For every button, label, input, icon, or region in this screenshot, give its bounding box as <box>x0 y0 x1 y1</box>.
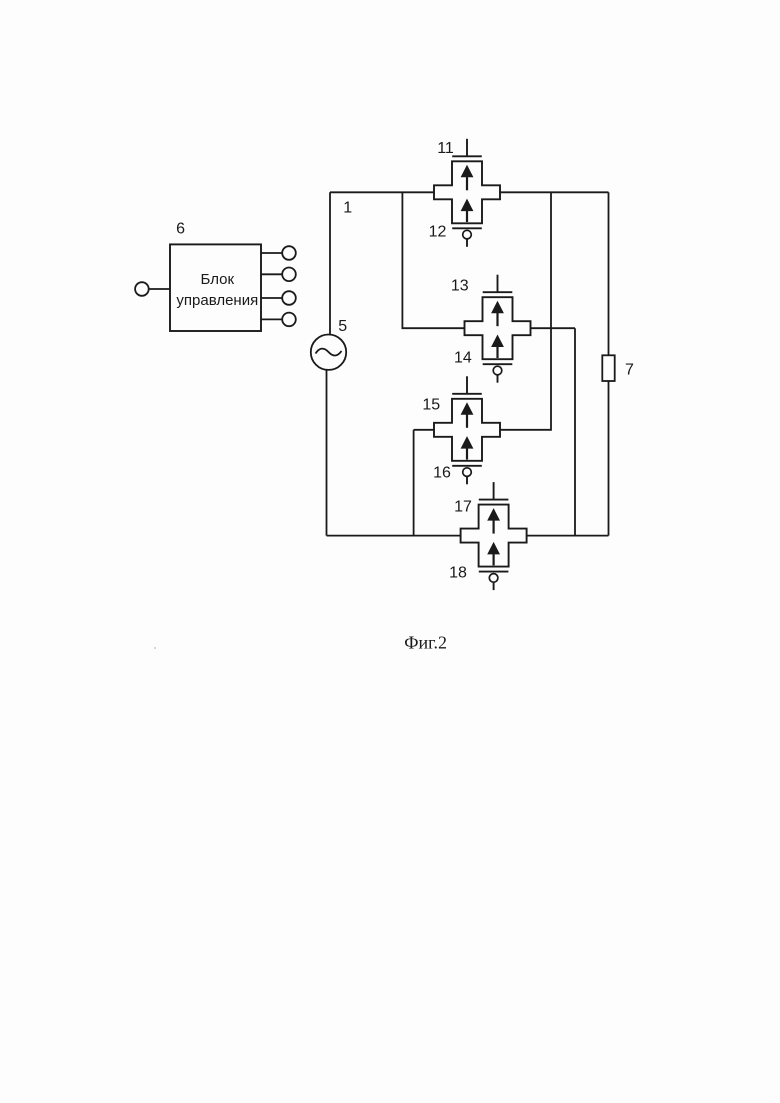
svg-text:16: 16 <box>433 464 451 481</box>
svg-text:1: 1 <box>343 199 352 216</box>
svg-text:14: 14 <box>454 349 472 366</box>
svg-text:12: 12 <box>429 224 447 241</box>
svg-text:Фиг.2: Фиг.2 <box>404 633 447 653</box>
svg-text:11: 11 <box>437 140 454 157</box>
svg-text:управления: управления <box>176 292 258 309</box>
svg-text:5: 5 <box>338 318 347 335</box>
svg-text:17: 17 <box>454 498 472 515</box>
svg-text:18: 18 <box>449 565 467 582</box>
svg-text:15: 15 <box>422 397 440 414</box>
svg-text:6: 6 <box>176 220 185 237</box>
svg-text:Блок: Блок <box>201 271 235 288</box>
svg-text:13: 13 <box>451 278 469 295</box>
svg-text:7: 7 <box>625 362 634 379</box>
